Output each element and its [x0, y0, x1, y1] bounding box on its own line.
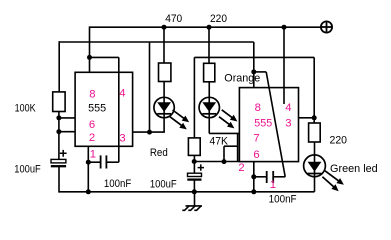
- wire R5 to LED3 anode: [314, 142, 316, 155]
- svg-text:100nF: 100nF: [104, 178, 132, 190]
- resistor R2 220: [204, 63, 215, 82]
- svg-text:Green led: Green led: [330, 163, 378, 175]
- resistor R1 470: [159, 63, 171, 82]
- wire LED2 cathode down: [208, 118, 210, 134]
- wire C2 left lead: [88, 161, 100, 163]
- LED D3 Green: [304, 155, 344, 191]
- wire bottom ground rail: [59, 191, 315, 193]
- wire drop to R1 470: [163, 27, 165, 63]
- power +V symbol: [321, 21, 332, 32]
- wire C2 right lead: [107, 161, 119, 163]
- svg-text:2: 2: [238, 162, 244, 174]
- resistor R3 100K: [53, 92, 65, 112]
- wire drop to R3 100K top: [58, 41, 60, 93]
- wire U2 pin8 feed: [253, 42, 255, 88]
- svg-text:Orange: Orange: [224, 73, 260, 85]
- svg-text:8: 8: [89, 89, 95, 101]
- op-amp U1 555 box: [75, 72, 133, 146]
- node top rail R2: [207, 25, 212, 30]
- svg-text:1: 1: [270, 179, 276, 191]
- wire U2 pin1 down: [253, 162, 255, 192]
- wire R2 to LED2 anode: [208, 82, 210, 98]
- svg-text:470: 470: [165, 13, 182, 25]
- wire drop to R2 220: [208, 27, 210, 63]
- op-amp U2 555 box: [239, 88, 298, 162]
- wire U1 pin8 branch horizontal: [90, 56, 119, 58]
- wire U2 pin2 loop vertical: [223, 146, 225, 161]
- node junction dots: [56, 25, 316, 195]
- resistor R4 47K: [188, 138, 200, 156]
- svg-text:555: 555: [254, 117, 272, 129]
- wire R3 bottom to C1: [58, 112, 60, 160]
- wire U1 pin4 feed through box: [118, 57, 120, 162]
- svg-text:220: 220: [210, 13, 227, 25]
- svg-text:7: 7: [253, 132, 259, 144]
- svg-text:100K: 100K: [15, 103, 37, 115]
- node ground rail U2 pin1: [251, 189, 256, 194]
- wire C4 left lead: [254, 176, 266, 178]
- node ground rail pin1: [86, 189, 91, 194]
- wire top rail left drop to junction: [89, 26, 91, 57]
- wire U1 pin3 horizontal: [133, 131, 165, 133]
- svg-text:3: 3: [285, 117, 291, 129]
- resistor R5 220: [309, 123, 321, 142]
- wire U2 pin2 loop horizontal: [224, 145, 238, 147]
- wire node row to U2 pin2 corner: [194, 161, 239, 163]
- wire R1 to LED1 anode: [163, 82, 165, 98]
- wire LED3 cathode to ground rail: [314, 176, 316, 191]
- svg-text:100uF: 100uF: [150, 178, 177, 190]
- wire U1 pin2 horizontal: [59, 131, 75, 133]
- wire diagonal across U2: [266, 72, 285, 177]
- wire U2 pin3 horizontal: [299, 117, 315, 119]
- svg-text:2: 2: [89, 132, 95, 144]
- wire output rail of U1 (horizontal): [59, 41, 254, 43]
- svg-text:8: 8: [255, 102, 261, 114]
- wire output rail of U2 (horizontal): [194, 56, 314, 58]
- node U1 pin1 C2: [86, 160, 91, 165]
- wire R4 bottom node: [193, 155, 195, 173]
- ground stub: [194, 192, 196, 206]
- capacitor C4 100nF: [267, 171, 274, 183]
- wire C3 bottom to ground rail: [193, 179, 195, 191]
- wire U1 pin1 down: [87, 146, 89, 192]
- svg-text:6: 6: [253, 149, 259, 161]
- wire C4 right lead: [274, 176, 285, 178]
- capacitor C3 100uF polarized: [187, 164, 204, 179]
- LED D1 Red: [154, 97, 189, 129]
- svg-text:4: 4: [119, 87, 125, 99]
- node pin2 loop: [222, 159, 227, 164]
- LED D2 Orange: [199, 97, 237, 128]
- wire top +V rail: [90, 26, 322, 28]
- node U2 pin8 diagonal: [251, 69, 256, 74]
- svg-text:100uF: 100uF: [14, 163, 41, 175]
- node U2 pin3: [312, 115, 317, 120]
- wire U1 pin8 stub: [89, 57, 91, 72]
- wire U1 pin6 horizontal: [59, 117, 75, 119]
- wire drop to U2 pin 4: [283, 27, 285, 104]
- node U1 pin8/pin4: [87, 55, 92, 60]
- capacitor C1 100uF polarized: [51, 150, 67, 166]
- svg-text:6: 6: [89, 119, 95, 131]
- svg-text:220: 220: [330, 134, 348, 146]
- wire C1 bottom to ground rail: [58, 166, 60, 192]
- svg-text:47K: 47K: [210, 135, 229, 147]
- wire drop to U2 pin3 node: [313, 57, 315, 123]
- node U1 pin6: [56, 115, 61, 120]
- capacitor C2 100nF: [101, 155, 107, 168]
- node top rail U2 pin4: [282, 25, 287, 30]
- node U1 pin2: [56, 129, 61, 134]
- svg-text:4: 4: [285, 102, 291, 114]
- node U1 pin3: [147, 130, 152, 135]
- wire LED1 cathode to pin3 wire: [163, 118, 165, 133]
- wire LED2 jog drop on U2 left edge: [237, 133, 239, 161]
- svg-text:1: 1: [90, 149, 96, 161]
- wire drop to R4 47K top: [193, 57, 195, 137]
- node ground rail center: [192, 189, 197, 194]
- svg-text:Red: Red: [150, 147, 168, 159]
- svg-text:3: 3: [119, 132, 125, 144]
- wire drop from output rail to U1 pin3 node: [149, 42, 151, 132]
- wire LED2 jog horizontal: [209, 132, 239, 134]
- svg-text:100nF: 100nF: [269, 193, 297, 205]
- ground: [182, 206, 202, 210]
- svg-text:555: 555: [88, 103, 106, 115]
- node R4 bottom: [192, 159, 197, 164]
- wire diagonal from pin8 node horizontal stub: [254, 71, 266, 73]
- node top rail R1: [162, 25, 167, 30]
- node C4 left: [251, 174, 256, 179]
